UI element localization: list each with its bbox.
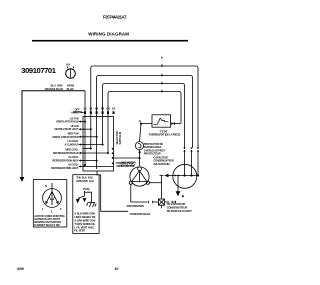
compressor ground wire <box>177 176 179 192</box>
wire matrix to fan node <box>114 157 140 159</box>
loop 2 wire <box>97 76 193 170</box>
title rule <box>32 40 188 42</box>
thermostat switch symbol <box>154 118 169 124</box>
svg-text:A BLK WIRE GRN: A BLK WIRE GRN <box>74 211 95 215</box>
svg-text:4/00: 4/00 <box>17 267 24 271</box>
inline connector <box>149 201 153 204</box>
svg-text:MED FAN: MED FAN <box>68 131 79 135</box>
capacitor junction vertical <box>161 175 163 199</box>
matrix verticals and loops <box>85 66 198 169</box>
rotary caption <box>34 214 65 227</box>
ground symbol wires <box>78 191 92 200</box>
compressor <box>173 164 197 188</box>
compressor feed wires continue <box>184 152 186 176</box>
rotary switch box <box>33 180 67 228</box>
svg-text:THU BLK BLK: THU BLK BLK <box>76 176 93 180</box>
loop 3 wire <box>103 84 185 148</box>
svg-text:(DE MARCHE): (DE MARCHE) <box>154 162 170 166</box>
svg-text:WIRING DIAGRAM: WIRING DIAGRAM <box>88 32 129 37</box>
junction node at thermostat feed <box>140 123 142 125</box>
ground detail box <box>73 175 99 234</box>
ground wire from matrix to bottom <box>97 171 128 211</box>
svg-text:HI FAN: HI FAN <box>71 124 79 128</box>
quick connect box <box>158 199 164 205</box>
terminal ticks between boxes <box>79 121 85 168</box>
fm capacitor label <box>167 202 192 213</box>
loop 4 wire <box>108 92 181 155</box>
svg-text:THERMOSTAT (DE LA PIECE): THERMOSTAT (DE LA PIECE) <box>149 133 181 137</box>
terminal circle 1 <box>66 69 76 79</box>
wire v1 <box>84 91 86 165</box>
svg-text:LO COOL: LO COOL <box>67 139 79 143</box>
svg-text:FM CAPACITOR: FM CAPACITOR <box>167 202 186 206</box>
svg-text:BLAN: BLAN <box>67 87 74 91</box>
svg-text:CONDENSATEUR: CONDENSATEUR <box>167 206 188 210</box>
svg-text:VENTILATEUR HAUT: VENTILATEUR HAUT <box>54 127 79 131</box>
fan left terminal wire down <box>131 184 148 202</box>
svg-text:FIL VERT: FIL VERT <box>74 229 85 233</box>
switch position labels (right aligned inside box) <box>51 108 80 170</box>
wire right of connector <box>165 201 167 203</box>
svg-text:GRN GRN GLU: GRN GRN GLU <box>76 179 94 183</box>
loop 1 wire <box>91 66 198 149</box>
switch matrix box <box>83 117 114 172</box>
svg-text:N: N <box>45 184 47 188</box>
svg-text:OF FR1: OF FR1 <box>73 110 82 114</box>
thermostat wires <box>171 123 181 125</box>
svg-text:REFRIGERATION HAUT: REFRIGERATION HAUT <box>51 166 79 170</box>
overload protector circle <box>135 142 143 150</box>
svg-text:XA: XA <box>66 63 71 67</box>
overload label <box>144 142 166 156</box>
svg-text:PROTECTEUR: PROTECTEUR <box>144 152 161 156</box>
quick connect ticks on loop tops <box>161 56 163 92</box>
svg-text:LINEA NEGRA TIE: LINEA NEGRA TIE <box>74 215 95 219</box>
node above fan motor <box>138 157 140 159</box>
svg-text:BLU ORN: BLU ORN <box>51 83 63 87</box>
svg-text:A CLIM BAS: A CLIM BAS <box>65 143 79 147</box>
fan right terminal wire <box>149 182 161 184</box>
wire color labels above box <box>45 83 75 90</box>
compressor run wire arrow <box>167 175 175 177</box>
selector switch box (left) <box>22 91 85 177</box>
svg-text:ORANGE BLAN: ORANGE BLAN <box>45 87 63 91</box>
fan motor label <box>119 160 136 167</box>
svg-text:MOTOR VENT: MOTOR VENT <box>119 163 136 167</box>
row end dots on matrix right edge <box>112 148 114 150</box>
terminal codes on verticals <box>84 107 116 111</box>
rotary switch <box>43 189 62 208</box>
svg-text:REFRIGERATION MOY: REFRIGERATION MOY <box>52 159 78 163</box>
svg-text:MED COOL: MED COOL <box>65 148 79 152</box>
capacitor label <box>154 155 175 165</box>
overload bottom terminal dot <box>139 151 141 153</box>
svg-text:T GRN VERDE DE: T GRN VERDE DE <box>74 222 95 226</box>
svg-text:D’ARRET SELECT SW: D’ARRET SELECT SW <box>34 223 60 227</box>
thermostat label <box>149 130 181 137</box>
svg-text:DE MARCHE DU MOT: DE MARCHE DU MOT <box>167 209 192 213</box>
svg-text:F2S744A21A7: F2S744A21A7 <box>103 15 127 20</box>
svg-text:VENTILATEUR BAS: VENTILATEUR BAS <box>56 120 79 124</box>
matrix rows with junction dots <box>83 121 114 167</box>
svg-text:VENTILATEUR MOYEN: VENTILATEUR MOYEN <box>52 135 79 139</box>
svg-text:3456 BRN BRN: 3456 BRN BRN <box>127 204 144 208</box>
svg-text:309107701: 309107701 <box>21 66 56 75</box>
compressor feed connectors <box>183 148 199 152</box>
wire labels under fan wire <box>127 204 151 216</box>
ground caption <box>74 211 95 232</box>
stub ticks on verticals <box>84 111 115 114</box>
svg-text:REFRIGERATION BAS: REFRIGERATION BAS <box>53 151 79 155</box>
earth ground hatch <box>87 200 97 208</box>
svg-text:HI COOL: HI COOL <box>68 163 79 167</box>
thermostat box <box>152 115 171 127</box>
svg-text:A GRN WIRE CON: A GRN WIRE CON <box>74 218 95 222</box>
wire overload to fan node <box>139 150 141 166</box>
wire from node down to overload <box>140 124 142 142</box>
svg-text:(TAN): (TAN) <box>83 187 90 191</box>
svg-text:SWITCH IN: SWITCH IN <box>118 132 122 145</box>
svg-text:HI COOL: HI COOL <box>68 155 79 159</box>
svg-text:CONEXION MASA: CONEXION MASA <box>130 212 151 216</box>
svg-text:ORAN: ORAN <box>67 83 74 87</box>
fan motor <box>130 167 149 186</box>
svg-text:10: 10 <box>114 267 118 271</box>
matrix side label <box>116 161 134 168</box>
